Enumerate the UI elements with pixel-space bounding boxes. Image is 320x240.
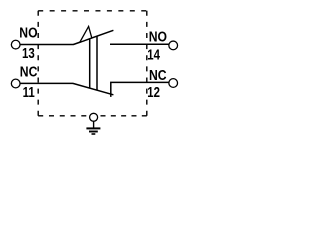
actuator triangle	[80, 26, 92, 42]
svg-text:14: 14	[147, 46, 160, 63]
terminal circle 12	[169, 79, 178, 88]
svg-text:NC: NC	[149, 67, 167, 83]
wire: terminal 14 fixed NO contact	[110, 43, 169, 45]
wire: terminal 11 to pole	[20, 82, 73, 84]
svg-text:NC: NC	[20, 63, 38, 79]
svg-text:12: 12	[147, 83, 160, 100]
ground symbol	[86, 121, 100, 134]
mechanical linkage line 2	[96, 36, 98, 90]
dashed enclosure box	[38, 11, 147, 116]
terminal circle 13	[11, 40, 20, 49]
svg-text:NO: NO	[19, 25, 37, 41]
wire: terminal 12 fixed NC contact (L-shape)	[111, 82, 169, 97]
ground terminal circle	[90, 113, 98, 121]
svg-text:13: 13	[22, 44, 35, 61]
svg-text:11: 11	[23, 84, 35, 101]
switch blade NC (closed, bottom)	[73, 83, 114, 94]
terminal circle 11	[11, 79, 20, 88]
switch blade NO (open, top)	[73, 30, 113, 44]
terminal circle 14	[169, 41, 178, 50]
svg-text:NO: NO	[149, 29, 167, 45]
wire: terminal 13 to pole	[20, 44, 74, 46]
mechanical linkage line 1	[89, 39, 91, 88]
